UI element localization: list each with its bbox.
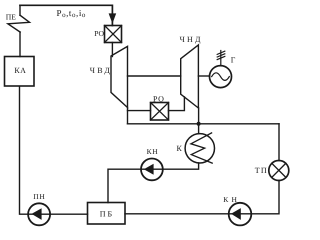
pump К Н (circle with left arrow) — [229, 203, 252, 226]
wire: РО1 to ЧВД inlet — [111, 43, 113, 57]
wire: generator shaft line ЧНД to Г — [198, 75, 209, 77]
flow arrow into РО1 — [109, 13, 117, 23]
control valve РО1 (box with X) — [105, 26, 122, 43]
condenser К (circle with coil zigzag) — [185, 133, 214, 163]
wire: ЧВД exhaust to РО2 — [128, 110, 151, 112]
boiler КА (rectangle) — [5, 57, 35, 87]
drum/tank ПБ (rectangle) — [88, 203, 126, 225]
svg-text:ТП: ТП — [255, 166, 268, 175]
wire: extraction line to ТП (horizontal) — [128, 123, 280, 125]
svg-text:Г: Г — [231, 55, 236, 64]
turbine LP section ЧНД (trapezoid) — [181, 45, 199, 108]
svg-text:КН: КН — [223, 195, 240, 204]
wire: КА to ПЕ — [19, 32, 21, 56]
wire: crossover ЧВД to ЧНД — [128, 75, 181, 77]
turbine HP section ЧВД (trapezoid) — [111, 46, 128, 107]
wire: condenser to КН pump to ПБ — [108, 163, 199, 203]
svg-text:Po,to,io: Po,to,io — [57, 8, 86, 19]
wire: РО2 to ЧНД inlet — [169, 97, 185, 111]
svg-text:ПБ: ПБ — [100, 210, 114, 219]
svg-text:РО: РО — [94, 29, 104, 38]
wire: main steam line top (ПЕ to РО1) — [20, 5, 112, 25]
control valve РО2 (box with X) — [151, 103, 169, 121]
wire: ТП to К Н pump to ПБ (return line) — [125, 181, 279, 214]
wire: ПБ to ПН pump to КА (feedwater line) — [20, 86, 88, 214]
svg-text:К: К — [177, 144, 183, 153]
svg-text:КА: КА — [14, 66, 26, 75]
node: junction at condenser inlet — [197, 122, 201, 126]
svg-text:ПН: ПН — [33, 192, 45, 201]
pump КН (circle with left arrow) — [141, 159, 163, 181]
svg-text:ПЕ: ПЕ — [6, 13, 16, 22]
wire: ЧВД exhaust down leg — [127, 108, 129, 124]
pump ПН (circle with left arrow) — [28, 203, 50, 225]
generator Г (circle with sine wave) — [210, 66, 232, 88]
svg-text:ЧВД: ЧВД — [90, 66, 112, 75]
wire: ЧНД exhaust to condenser — [198, 108, 200, 134]
svg-text:РО: РО — [153, 94, 165, 103]
grid connection symbol above generator — [217, 51, 225, 66]
svg-text:ЧНД: ЧНД — [180, 35, 203, 44]
superheater ПЕ (zigzag in boiler outlet line) — [8, 5, 30, 32]
wire: extraction down to ТП — [278, 124, 280, 161]
svg-text:КН: КН — [147, 147, 159, 156]
heat consumer ТП (circle with X) — [269, 161, 289, 181]
